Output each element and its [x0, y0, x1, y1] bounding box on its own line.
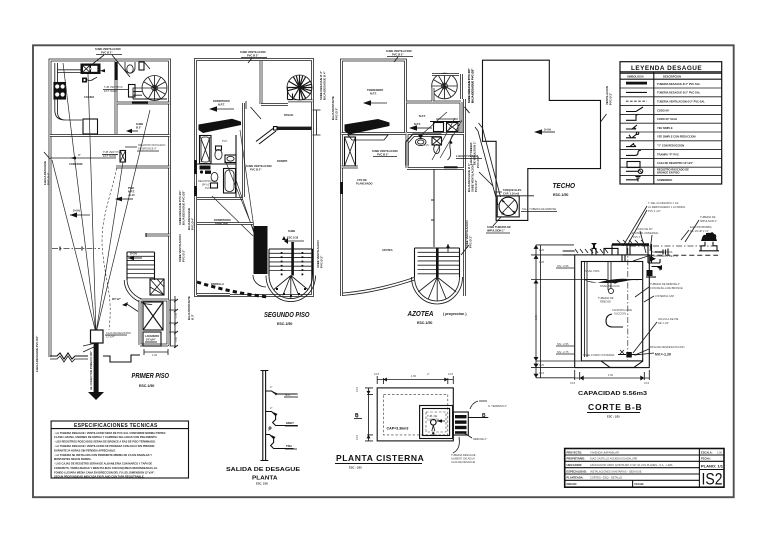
svg-text:N.P.T.: N.P.T. — [128, 190, 135, 194]
svg-text:CORTES - ESQ - DETALLE: CORTES - ESQ - DETALLE — [590, 476, 622, 480]
svg-text:FECHA:: FECHA: — [635, 482, 645, 486]
pipe diagonals to caja — [52, 63, 150, 333]
svg-text:YEE SIMPLE CON REDUCCION: YEE SIMPLE CON REDUCCION — [657, 135, 696, 139]
svg-text:INSTALACIONES SANITARIAS - DES: INSTALACIONES SANITARIAS - DESAGUE — [590, 469, 642, 473]
crossing leaders — [420, 112, 462, 160]
svg-text:PVC Ø 3": PVC Ø 3" — [335, 107, 339, 120]
svg-text:PRINCIPAL: PRINCIPAL — [215, 222, 229, 226]
outer walls top room — [342, 60, 406, 296]
svg-text:TRAMPA "P" PVC: TRAMPA "P" PVC — [657, 152, 679, 156]
svg-text:PVC Ø 2": PVC Ø 2" — [377, 152, 389, 156]
svg-text:ASOCIACION UPAO QUINTA MZ. F'1: ASOCIACION UPAO QUINTA MZ. F'117 10 LOS … — [590, 463, 673, 467]
wall below pasadizo — [277, 127, 312, 130]
svg-text:PARRILLA: PARRILLA — [211, 282, 224, 286]
top dims — [377, 376, 453, 384]
tub 2 vertical — [224, 169, 236, 194]
svg-text:0.90: 0.90 — [174, 336, 178, 342]
svg-text:PVC Ø 4": PVC Ø 4" — [191, 217, 195, 230]
svg-text:SUBE: SUBE — [288, 229, 295, 233]
svg-text:AZOTEA: AZOTEA — [382, 248, 393, 252]
tub — [200, 136, 212, 164]
sube arrow on stair — [284, 240, 304, 242]
svg-text:ESC : 1/25: ESC : 1/25 — [607, 415, 620, 419]
shower — [448, 135, 453, 160]
svg-text:SUBE VENTILACION: SUBE VENTILACION — [372, 149, 398, 153]
right column — [699, 455, 724, 470]
svg-text:CAJA DE REGISTRO 12"x24": CAJA DE REGISTRO 12"x24" — [657, 161, 694, 165]
svg-text:(2) UNION UNIVERSAL: (2) UNION UNIVERSAL — [631, 231, 659, 235]
kitchen counter — [55, 63, 100, 120]
svg-text:ESC. 1/20: ESC. 1/20 — [256, 482, 268, 486]
S=1% arrows — [70, 214, 90, 216]
black wall chunk — [115, 62, 118, 80]
svg-text:PROYECTO:: PROYECTO: — [567, 450, 583, 454]
column divider — [653, 72, 655, 184]
svg-text:Ø4"x2": Ø4"x2" — [202, 182, 210, 186]
vent pipe top — [627, 245, 630, 255]
svg-text:PVC 1 1/2": PVC 1 1/2" — [648, 209, 661, 213]
svg-text:CORTE B-B: CORTE B-B — [588, 402, 642, 412]
svg-text:PLANCHADO: PLANCHADO — [356, 182, 373, 186]
svg-text:1.00: 1.00 — [152, 353, 158, 357]
svg-text:FONDO LLEVARA MEDIA CANA EN DI: FONDO LLEVARA MEDIA CANA EN DIRECCION DE… — [54, 470, 155, 474]
table — [83, 119, 98, 134]
svg-text:0.15: 0.15 — [448, 372, 454, 376]
svg-text:AZOTEA: AZOTEA — [407, 311, 434, 318]
pump box right — [453, 412, 468, 435]
svg-text:ESC : 1/25: ESC : 1/25 — [349, 466, 362, 470]
center dashdot vertical — [627, 248, 629, 360]
svg-text:CONCRETO, TARRAJEADAS Y BIEN P: CONCRETO, TARRAJEADAS Y BIEN PULIDAS CON… — [54, 466, 158, 470]
small fixture chase lower — [120, 151, 126, 163]
svg-text:BRONCE EN PISO: BRONCE EN PISO — [657, 171, 679, 175]
svg-text:B.C.: B.C. — [286, 393, 291, 397]
svg-text:NIVEL DE AGUA: NIVEL DE AGUA — [600, 284, 620, 288]
svg-text:IMPULSION 1": IMPULSION 1" — [700, 219, 717, 223]
interior vertical line bath to stair — [431, 169, 434, 247]
fan — [415, 277, 460, 301]
svg-text:PISO: PISO — [128, 186, 134, 190]
dorm principal walls — [197, 222, 253, 225]
fan — [269, 276, 313, 299]
row2 line — [626, 91, 647, 93]
wall below X box — [342, 166, 359, 169]
left dim chain — [531, 245, 602, 378]
svg-text:CAJA DE DESAGUE: CAJA DE DESAGUE — [451, 460, 475, 464]
svg-text:VALVULA DE PIE: VALVULA DE PIE — [658, 317, 679, 321]
ground slab band — [612, 243, 649, 245]
svg-text:PVC Ø 2": PVC Ø 2" — [250, 167, 262, 171]
svg-text:NIV. -2.55: NIV. -2.55 — [557, 342, 569, 346]
bathroom — [407, 134, 464, 169]
interior wall kitchen/stair — [115, 61, 118, 134]
landing wall — [146, 234, 170, 237]
row10 caja — [627, 162, 640, 168]
sink — [81, 64, 100, 74]
svg-text:N.P.T.: N.P.T. — [218, 103, 225, 107]
svg-text:NIV. -2.75: NIV. -2.75 — [557, 350, 569, 354]
svg-text:DIBUJO:: DIBUJO: — [567, 482, 578, 486]
tank outer/inner walls — [575, 255, 650, 368]
svg-text:+0.15: +0.15 — [128, 193, 135, 197]
row12 sombrero — [626, 179, 638, 181]
title row — [620, 72, 722, 73]
dashed thick arc bottom left — [197, 282, 268, 297]
svg-text:CAPACIDAD 5.56m3: CAPACIDAD 5.56m3 — [578, 391, 647, 397]
svg-text:PVC: PVC — [222, 139, 227, 143]
row3 dashed — [626, 100, 647, 102]
svg-text:CON REJILLA DE BRONCE: CON REJILLA DE BRONCE — [650, 286, 683, 290]
svg-text:BAJA DESAGUE PVC Ø2": BAJA DESAGUE PVC Ø2" — [182, 190, 186, 225]
svg-text:PVC 1": PVC 1" — [633, 235, 641, 239]
stair hall bottom wall — [117, 102, 170, 105]
svg-text:VIVIENDA UNIFAMILIAR: VIVIENDA UNIFAMILIAR — [590, 450, 619, 454]
leader top right — [470, 401, 487, 409]
water line with dip — [584, 280, 642, 284]
interior wall vertical hall — [260, 61, 263, 104]
drain diagonals — [212, 130, 254, 236]
svg-text:DORMIT.: DORMIT. — [277, 159, 288, 163]
svg-text:SOMBRERO: SOMBRERO — [657, 178, 672, 182]
svg-text:PVC Ø 4": PVC Ø 4" — [47, 172, 51, 185]
svg-text:24"x24": 24"x24" — [146, 338, 156, 342]
svg-text:SALE TUBERIA DE REBOSE: SALE TUBERIA DE REBOSE — [522, 207, 557, 211]
left dims — [365, 388, 373, 441]
svg-text:PVC Ø 2": PVC Ø 2" — [469, 235, 473, 248]
svg-text:CODO DE 90°: CODO DE 90° — [636, 227, 653, 231]
svg-text:PASA DE DESINFECTACION: PASA DE DESINFECTACION — [650, 345, 684, 349]
svg-text:SEGUNDO PISO: SEGUNDO PISO — [264, 312, 310, 319]
svg-text:0.20: 0.20 — [539, 363, 545, 367]
svg-text:TUBERIA DE: TUBERIA DE — [700, 215, 716, 219]
top right piping — [648, 244, 660, 271]
toilet — [216, 146, 222, 150]
svg-text:- LA TUBERIA SE INSTALARA CON: - LA TUBERIA SE INSTALARA CON PENDIENTE … — [54, 453, 152, 457]
svg-text:TUBERIA DE: TUBERIA DE — [598, 296, 614, 300]
curved wall bottom — [343, 278, 414, 294]
svg-text:COCINA: COCINA — [84, 95, 94, 99]
svg-text:DORMITORIO: DORMITORIO — [213, 99, 230, 103]
row9 trampa — [626, 150, 641, 155]
caja registro — [91, 330, 104, 343]
svg-text:SUBE VENTILACION: SUBE VENTILACION — [246, 164, 272, 168]
bottom valve — [626, 352, 632, 358]
svg-text:MONTANTES SEGUN NORMA.: MONTANTES SEGUN NORMA. — [54, 457, 92, 461]
svg-text:ESPECIALIDAD:: ESPECIALIDAD: — [567, 469, 587, 473]
svg-text:CTO DE: CTO DE — [357, 178, 367, 182]
svg-text:TUBERIA DE REBOSE 2": TUBERIA DE REBOSE 2" — [650, 282, 680, 286]
branch 1 — [266, 391, 298, 394]
row6 yee — [626, 125, 637, 129]
svg-text:CISTERNA CAP.: CISTERNA CAP. — [655, 294, 675, 298]
bottom wall left with break — [50, 353, 88, 359]
svg-text:1.80: 1.80 — [534, 314, 538, 320]
svg-text:TUBERIA DESAGUE Ø 2" PVC-SAL: TUBERIA DESAGUE Ø 2" PVC-SAL — [657, 91, 701, 95]
svg-text:0.25: 0.25 — [539, 260, 545, 264]
floor slope — [601, 361, 643, 368]
svg-text:- LA TUBERIA DESAGUE / VENTILA: - LA TUBERIA DESAGUE / VENTILACION SERA … — [54, 431, 166, 435]
bottom-left bump wall — [197, 293, 230, 296]
thick sewer arrow — [94, 343, 99, 392]
door diagonal — [251, 107, 262, 119]
bath bottom wall — [197, 197, 243, 200]
internal pipes — [585, 262, 588, 357]
svg-text:PVC Ø 2": PVC Ø 2" — [101, 50, 113, 54]
left rows — [565, 455, 700, 480]
door arc bottom-left — [253, 275, 266, 287]
roof outline — [483, 60, 601, 220]
svg-text:NV.=-1.20: NV.=-1.20 — [655, 353, 671, 357]
black roof band — [345, 119, 390, 135]
svg-text:0.15: 0.15 — [644, 381, 650, 385]
svg-text:UBICACION:: UBICACION: — [567, 463, 583, 467]
row11 registro — [626, 170, 638, 172]
svg-text:DIAZ CASTILLO AGUEDA GUADALUPE: DIAZ CASTILLO AGUEDA GUADALUPE — [590, 457, 638, 461]
drain arrow to lavadero — [122, 302, 128, 307]
floor drain — [82, 78, 87, 83]
kitchen bottom wall — [50, 134, 170, 137]
inner dashed — [383, 394, 447, 435]
svg-text:0.15: 0.15 — [539, 371, 545, 375]
svg-text:NIV. -0.95: NIV. -0.95 — [557, 264, 569, 268]
hatched duct — [150, 279, 164, 295]
svg-text:S=1%: S=1% — [73, 209, 81, 213]
manhole square — [420, 406, 453, 439]
spiral stair plan3 — [432, 73, 458, 99]
branch 3 — [266, 435, 294, 449]
branch 2 — [266, 412, 298, 426]
svg-text:AL REBOSADERO 1 1/2 BRIDA: AL REBOSADERO 1 1/2 BRIDA — [648, 205, 686, 209]
svg-text:N.P.T.: N.P.T. — [419, 114, 426, 118]
row5 codo salida — [626, 114, 638, 120]
svg-text:DE 1/2 HP 1"x1": DE 1/2 HP 1"x1" — [690, 229, 709, 233]
svg-text:1.20: 1.20 — [355, 412, 359, 418]
svg-text:1:50: 1:50 — [717, 451, 723, 455]
svg-text:S=1%: S=1% — [544, 128, 552, 132]
svg-text:TENDEDERO: TENDEDERO — [367, 88, 383, 92]
svg-text:REBOSE: REBOSE — [600, 300, 611, 304]
svg-text:"Y" CON REDUCCION: "Y" CON REDUCCION — [657, 144, 684, 148]
stair plan2 — [269, 249, 313, 276]
svg-text:T. DEL ACCESORIO 1 1/2: T. DEL ACCESORIO 1 1/2 — [648, 201, 679, 205]
stair plan3 — [415, 248, 460, 277]
svg-text:CODO 90° SALE: CODO 90° SALE — [657, 117, 677, 121]
svg-text:PLANTA CISTERNA: PLANTA CISTERNA — [336, 453, 424, 463]
svg-text:2": 2" — [270, 406, 272, 410]
svg-text:ESC.1/50: ESC.1/50 — [553, 193, 568, 197]
svg-text:CAJA DE REGISTRO: CAJA DE REGISTRO — [106, 331, 131, 335]
dash-dot axis horizontal — [630, 245, 714, 247]
svg-text:BAJA DESAGUE Ø 4": BAJA DESAGUE Ø 4" — [323, 71, 327, 100]
svg-text:TAPA SANITARIA: TAPA SANITARIA — [652, 250, 673, 254]
svg-text:CLASE LIVIANA, UNIONES DE ESPI: CLASE LIVIANA, UNIONES DE ESPIGA Y CAMPA… — [54, 435, 158, 439]
svg-text:CON MARCO DE F°G°: CON MARCO DE F°G° — [652, 254, 679, 258]
svg-text:TUB. DE: TUB. DE — [427, 414, 438, 418]
spiral stair plan2 — [287, 75, 312, 100]
arrow mid — [416, 127, 432, 129]
svg-text:N.P.T.: N.P.T. — [414, 122, 421, 126]
svg-text:LLEGA DESAGUE PVC Ø4": LLEGA DESAGUE PVC Ø4" — [35, 335, 39, 372]
X box left — [345, 137, 356, 166]
interior vertical line bath to stair — [431, 169, 434, 247]
svg-text:SIMBOLOGIA: SIMBOLOGIA — [627, 74, 644, 78]
svg-text:BAJA DESAGUE PVC Ø2": BAJA DESAGUE PVC Ø2" — [471, 68, 475, 103]
upper fixtures row — [430, 121, 460, 123]
black wall chunks left — [194, 160, 197, 174]
svg-text:PROPIETARIO:: PROPIETARIO: — [567, 457, 586, 461]
stove — [54, 83, 66, 100]
svg-text:0.15: 0.15 — [355, 386, 359, 392]
hall wall horizontal — [261, 103, 288, 106]
svg-text:PLANTEADA:: PLANTEADA: — [567, 476, 584, 480]
svg-text:PVC: PVC — [424, 143, 429, 147]
toilet top right room — [125, 62, 135, 73]
svg-text:CANASTILLA DE: CANASTILLA DE — [612, 308, 632, 312]
dim ticks right of bath — [170, 296, 178, 348]
bottom right bath — [140, 300, 168, 345]
svg-text:2": 2" — [270, 385, 272, 389]
svg-text:DURANTE 24 HORAS SIN PERDIDA A: DURANTE 24 HORAS SIN PERDIDA APRECIABLE. — [54, 448, 116, 452]
dashed line mid — [52, 248, 100, 250]
svg-text:ESC.1/50: ESC.1/50 — [139, 384, 154, 388]
black wall rect — [254, 226, 268, 274]
svg-text:1.05: 1.05 — [174, 312, 178, 318]
svg-text:PLANTA: PLANTA — [252, 476, 278, 482]
row8 y reduccion — [626, 143, 636, 146]
svg-text:FECHA:: FECHA: — [701, 457, 711, 461]
svg-text:TUBERIA VENTILACION Ø 2" PVC-S: TUBERIA VENTILACION Ø 2" PVC-SAL — [657, 100, 705, 104]
svg-text:ALIMENT. DE AGUA: ALIMENT. DE AGUA — [451, 457, 475, 461]
svg-text:DE 1 1/2": DE 1 1/2" — [658, 321, 669, 325]
svg-text:PVC Ø 2": PVC Ø 2" — [474, 179, 478, 192]
bottom wall notch around caja — [103, 355, 140, 362]
svg-text:- LOS REGISTROS ROSCADOS SERAN: - LOS REGISTROS ROSCADOS SERAN DE BRONCE… — [54, 440, 156, 444]
svg-text:PVC Ø 2": PVC Ø 2" — [320, 255, 324, 268]
spiral stair plan1 — [142, 76, 167, 101]
hall lower wall — [116, 166, 170, 169]
border frame — [33, 45, 734, 497]
svg-text:AL COLECTOR PUBLICO Ø6": AL COLECTOR PUBLICO Ø6" — [89, 350, 93, 390]
svg-text:TANQUE ELEV.: TANQUE ELEV. — [503, 188, 522, 192]
svg-text:- LA TUBERIA DESAGUE / VENTILA: - LA TUBERIA DESAGUE / VENTILACION SE PR… — [54, 444, 155, 448]
svg-text:PRIMER PISO: PRIMER PISO — [132, 373, 170, 380]
svg-text:IMPULSION 1": IMPULSION 1" — [487, 229, 506, 233]
svg-text:SALIDA DE DESAGUE: SALIDA DE DESAGUE — [226, 467, 300, 473]
svg-text:0.15: 0.15 — [570, 381, 576, 385]
svg-text:N.P.T.: N.P.T. — [370, 92, 377, 96]
black roof band over bath — [199, 119, 242, 133]
header row — [620, 78, 722, 80]
svg-text:CAP=3.36m3: CAP=3.36m3 — [387, 427, 409, 431]
bottom dark band — [444, 166, 458, 168]
small fixture chase hall — [129, 85, 136, 98]
svg-text:Ø 3": Ø 3" — [191, 313, 195, 320]
slope arrow — [541, 131, 555, 133]
svg-text:LLEGA TUBERIA: LLEGA TUBERIA — [456, 154, 479, 158]
bath fixtures — [406, 134, 442, 166]
bottom dim — [575, 370, 650, 380]
svg-text:DORMITORIO: DORMITORIO — [214, 218, 231, 222]
row7 yee doble — [626, 134, 637, 138]
svg-text:ESC.1/50: ESC.1/50 — [417, 321, 432, 325]
svg-text:REBOSE 2": REBOSE 2" — [473, 437, 487, 441]
bath divider wall — [242, 103, 245, 197]
svg-text:REGISTRO PVC: REGISTRO PVC — [198, 179, 218, 183]
rows — [620, 88, 722, 175]
svg-text:CODO 90°: CODO 90° — [657, 108, 669, 112]
svg-text:SUBE VENTILACION: SUBE VENTILACION — [386, 49, 412, 53]
table frame — [620, 62, 722, 184]
top slab detail — [563, 251, 575, 255]
svg-text:ESC.1/50: ESC.1/50 — [277, 322, 292, 326]
float + cord — [609, 289, 614, 294]
leaders from left — [478, 128, 501, 205]
svg-text:Ø4"x2": Ø4"x2" — [112, 297, 122, 301]
outer walls — [196, 60, 313, 296]
dim 1.00 below lavadero — [144, 349, 168, 355]
vertical pipe — [261, 371, 269, 461]
pump blobs — [701, 232, 717, 241]
dashed ground right — [649, 254, 718, 256]
svg-text:BIDET: BIDET — [286, 421, 294, 425]
svg-text:NIVEL FONDO CISTERNA: NIVEL FONDO CISTERNA — [583, 353, 615, 357]
outer walls — [50, 60, 170, 357]
svg-text:PVC Ø 2": PVC Ø 2" — [392, 52, 404, 56]
svg-text:0.20: 0.20 — [539, 248, 545, 252]
svg-text:B: B — [482, 413, 486, 419]
leader bottom — [453, 437, 459, 453]
svg-text:- LAS CAJAS DE REGISTRO SERAN: - LAS CAJAS DE REGISTRO SERAN DE ALBANIL… — [54, 462, 152, 466]
svg-text:1.50: 1.50 — [411, 374, 417, 378]
svg-text:ESPECIFICACIONES TECNICAS: ESPECIFICACIONES TECNICAS — [74, 423, 158, 429]
svg-text:TUB VENT PVC: TUB VENT PVC — [103, 150, 122, 154]
lavatorio — [225, 155, 236, 163]
svg-text:TECHO: TECHO — [553, 183, 576, 190]
svg-text:1.50: 1.50 — [608, 373, 614, 377]
row1 thick bar — [626, 82, 647, 85]
svg-text:( proyeccion ): ( proyeccion ) — [443, 312, 467, 316]
svg-text:REGISTRO ROSCADO DE: REGISTRO ROSCADO DE — [657, 167, 689, 171]
svg-text:PLANO: 1/1: PLANO: 1/1 — [701, 463, 724, 468]
svg-text:SEGUN PROFUNDIDAD INDICADA EN: SEGUN PROFUNDIDAD INDICADA EN PLANO CON … — [54, 474, 145, 478]
svg-text:DESCRIPCION: DESCRIPCION — [663, 74, 681, 78]
svg-text:PVC Ø 2": PVC Ø 2" — [247, 53, 259, 57]
svg-text:TINA: TINA — [286, 444, 292, 448]
horizontal pipe w arrow — [50, 157, 116, 159]
svg-text:SUBE TUBERIA DE: SUBE TUBERIA DE — [487, 225, 511, 229]
svg-text:LEYENDA DESAGUE: LEYENDA DESAGUE — [631, 65, 702, 72]
svg-text:PVC Ø 2": PVC Ø 2" — [182, 249, 186, 262]
right edge dim ticks — [313, 110, 321, 135]
svg-text:CAP. 1.10 m3: CAP. 1.10 m3 — [503, 192, 520, 196]
svg-text:PVC: PVC — [205, 186, 210, 190]
svg-text:SUBE VENTILACION: SUBE VENTILACION — [95, 47, 121, 51]
straight stair plan1 — [127, 256, 155, 278]
svg-text:SUBE VENTILACION: SUBE VENTILACION — [240, 50, 266, 54]
svg-text:ELECTROBOMBA: ELECTROBOMBA — [690, 225, 712, 229]
svg-text:SUBE: SUBE — [136, 122, 143, 126]
black drain dots — [200, 166, 211, 170]
svg-text:0.15: 0.15 — [374, 372, 380, 376]
svg-text:2": 2" — [427, 372, 429, 376]
svg-text:PASAD.: PASAD. — [284, 113, 294, 117]
svg-text:NIVEL TAPA: NIVEL TAPA — [585, 269, 600, 273]
svg-text:IS2: IS2 — [702, 470, 723, 489]
svg-text:N. TERRENO 0": N. TERRENO 0" — [488, 404, 507, 408]
svg-text:YEE SIMPLE: YEE SIMPLE — [657, 126, 673, 130]
pump pedestal — [699, 242, 719, 251]
row4 codo 90 — [626, 107, 643, 112]
